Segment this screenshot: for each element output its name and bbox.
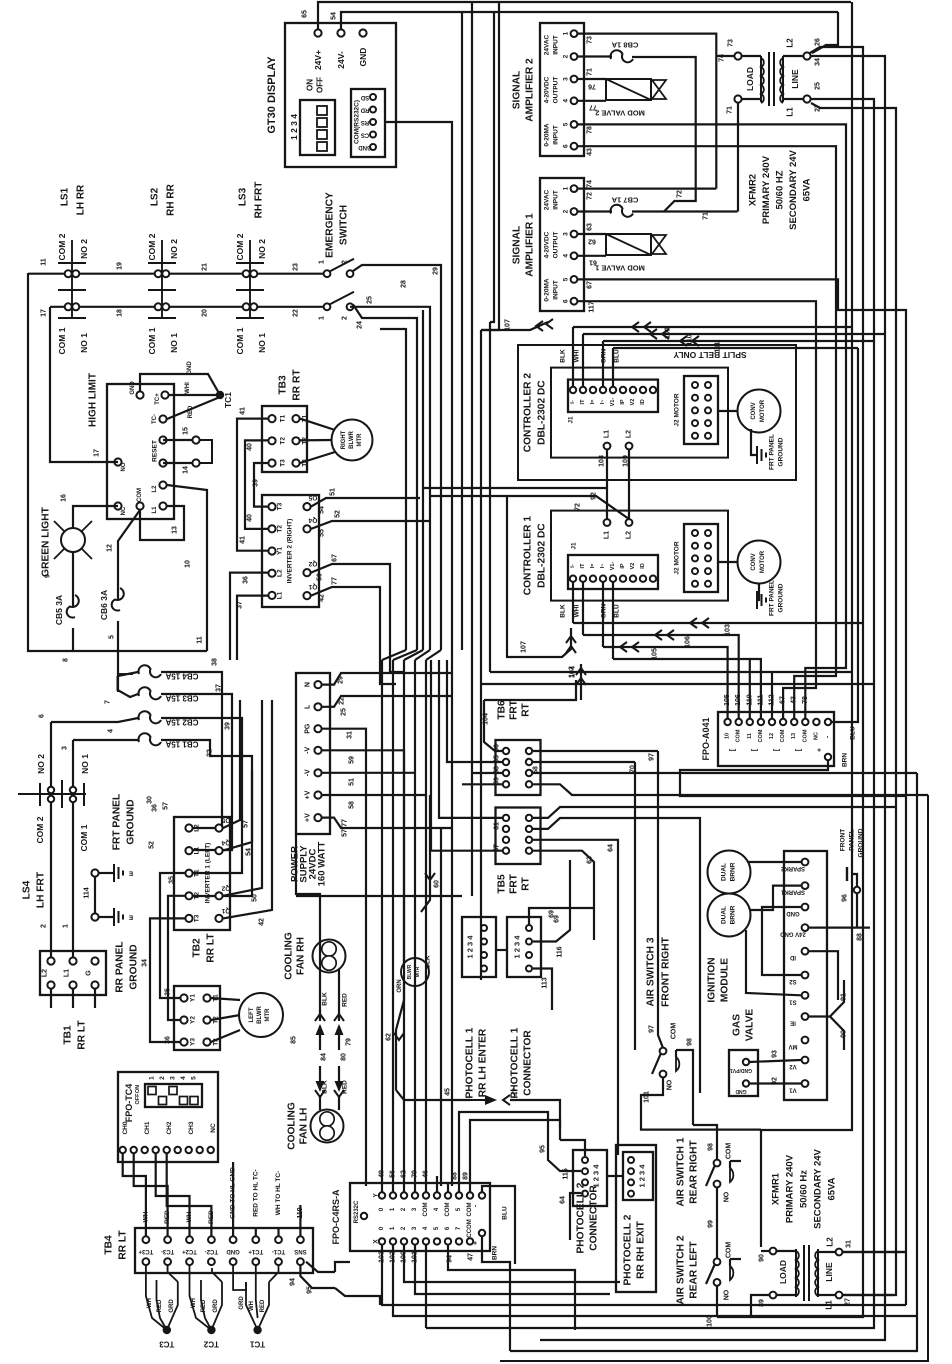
wire amp2 pin1 73 bbox=[578, 34, 716, 189]
controller 1 J1 connector bbox=[568, 555, 658, 589]
limit switch LS4 LH FRT bbox=[18, 793, 86, 795]
svg-text:1 2 3 4: 1 2 3 4 bbox=[638, 1164, 647, 1188]
svg-text:FPO-A041: FPO-A041 bbox=[701, 717, 711, 760]
svg-text:45: 45 bbox=[445, 1088, 452, 1096]
svg-text:47: 47 bbox=[513, 1088, 520, 1096]
XFMR2 load terminals bbox=[734, 52, 741, 59]
svg-text:67: 67 bbox=[780, 696, 787, 704]
svg-text:26: 26 bbox=[815, 38, 822, 46]
inverter2 terminal T3 bbox=[268, 503, 275, 510]
GT30 COM RS232C connector bbox=[351, 89, 385, 157]
svg-text:97: 97 bbox=[649, 753, 656, 761]
power supply terminal PG bbox=[314, 725, 321, 732]
right blower motor bbox=[332, 420, 373, 461]
svg-text:80: 80 bbox=[341, 1053, 348, 1061]
svg-text:42: 42 bbox=[319, 594, 326, 602]
svg-text:AIR SWITCH 3: AIR SWITCH 3 bbox=[646, 937, 657, 1006]
svg-text:L2: L2 bbox=[42, 969, 49, 977]
svg-text:WH: WH bbox=[249, 1301, 255, 1311]
BLU wire FPO-A041 bbox=[831, 348, 858, 722]
bus wire right vertical 928 bbox=[500, 795, 928, 1361]
svg-text:102: 102 bbox=[569, 666, 576, 678]
svg-text:CCOM: CCOM bbox=[467, 1219, 473, 1237]
terminal block TB6 FRT RT bbox=[496, 740, 541, 795]
svg-text:114: 114 bbox=[84, 887, 91, 898]
svg-text:RS232C: RS232C bbox=[354, 1200, 360, 1223]
photocell 2 connector box bbox=[573, 1150, 607, 1206]
photocell 1 connector box left bbox=[462, 917, 496, 977]
svg-text:GND: GND bbox=[358, 48, 368, 67]
svg-text:5: 5 bbox=[191, 1076, 198, 1080]
wire CB4 output bbox=[161, 672, 222, 828]
svg-text:I=: I= bbox=[590, 400, 596, 405]
svg-text:2: 2 bbox=[342, 316, 349, 320]
limit switch wire bus 11/19/21/23 bbox=[28, 273, 327, 275]
wire 111 with arrow bbox=[603, 340, 874, 342]
svg-text:ID: ID bbox=[789, 954, 796, 960]
svg-text:COM 2: COM 2 bbox=[147, 233, 157, 260]
wire inverter1 Q2 out bbox=[223, 700, 262, 896]
svg-text:34: 34 bbox=[142, 959, 149, 967]
wire TB6 row4 diagonal right bbox=[533, 784, 928, 795]
svg-text:GND: GND bbox=[130, 381, 136, 395]
svg-text:1 2 3 4: 1 2 3 4 bbox=[466, 935, 475, 959]
wires TB2 to left blower bbox=[211, 998, 240, 1000]
power supply terminal +V bbox=[314, 814, 321, 821]
controller 1 output wires bbox=[572, 582, 574, 623]
svg-text:WH: WH bbox=[191, 1298, 197, 1308]
svg-text:74: 74 bbox=[719, 54, 726, 62]
svg-text:NC: NC bbox=[121, 506, 127, 515]
svg-text:52: 52 bbox=[149, 841, 156, 849]
svg-text:TB4: TB4 bbox=[104, 1235, 115, 1255]
svg-text:4-20VDC: 4-20VDC bbox=[544, 231, 551, 258]
svg-text:BRNR: BRNR bbox=[730, 862, 737, 881]
svg-text:LINE: LINE bbox=[824, 1262, 834, 1282]
svg-text:GND: GND bbox=[786, 910, 800, 916]
svg-text:30: 30 bbox=[147, 796, 154, 804]
svg-text:TC2+: TC2+ bbox=[182, 1248, 197, 1254]
ignition module terminal S1 bbox=[802, 992, 809, 999]
wire 60 arrow bbox=[421, 795, 430, 912]
svg-text:COM: COM bbox=[726, 1143, 733, 1160]
inverter1 terminal L1 bbox=[185, 847, 192, 854]
svg-text:WHI: WHI bbox=[574, 349, 581, 362]
wire from high limit L2 no.10 bbox=[167, 485, 207, 651]
wire 24 emergency to bus bbox=[353, 305, 417, 651]
svg-text:ORN: ORN bbox=[397, 979, 403, 992]
svg-text:99: 99 bbox=[708, 1220, 715, 1228]
svg-text:71: 71 bbox=[587, 68, 594, 76]
FPO-C4RS-A box bbox=[350, 1183, 490, 1251]
svg-text:101: 101 bbox=[644, 1091, 651, 1103]
svg-text:12: 12 bbox=[769, 733, 775, 739]
svg-text:COM(RS232C): COM(RS232C) bbox=[354, 100, 361, 144]
limit switch LS3 RH FRT bbox=[249, 240, 251, 318]
svg-text:GND: GND bbox=[187, 361, 193, 375]
svg-text:79: 79 bbox=[346, 1038, 353, 1046]
wire amp2 pin6 43 bbox=[578, 146, 836, 718]
svg-text:Y3: Y3 bbox=[190, 1038, 197, 1046]
svg-text:GND: GND bbox=[358, 144, 372, 150]
FPO-TC4 DIP switch bbox=[145, 1084, 202, 1107]
amp2 terminal 5 bbox=[571, 121, 578, 128]
power supply box bbox=[296, 673, 330, 834]
svg-text:CH3: CH3 bbox=[188, 1121, 195, 1134]
inverter1 terminal Q5 bbox=[215, 824, 222, 831]
svg-text:74: 74 bbox=[587, 180, 594, 188]
svg-text:105: 105 bbox=[724, 694, 731, 706]
svg-text:COM: COM bbox=[671, 1023, 678, 1040]
svg-text:51: 51 bbox=[330, 488, 337, 496]
svg-text:L1: L1 bbox=[64, 969, 71, 977]
svg-text:FAN RH: FAN RH bbox=[296, 937, 307, 975]
svg-text:19: 19 bbox=[117, 262, 124, 270]
wire 94 95 from TB4 SNS bbox=[300, 1265, 335, 1288]
svg-text:GRD: GRD bbox=[239, 1296, 245, 1310]
FPO-A041 terminal 11 bbox=[747, 719, 753, 725]
svg-text:T1: T1 bbox=[194, 869, 201, 877]
svg-text:107: 107 bbox=[505, 319, 512, 331]
svg-text:J1: J1 bbox=[568, 416, 575, 424]
FPO-A041 terminal NC bbox=[813, 719, 819, 725]
wire 29 emergency to bus bbox=[353, 265, 441, 650]
amp2 terminal 6 bbox=[571, 143, 578, 150]
svg-text:25: 25 bbox=[815, 82, 822, 90]
svg-text:COM 1: COM 1 bbox=[235, 327, 245, 354]
power supply terminal +V bbox=[314, 791, 321, 798]
svg-text:98: 98 bbox=[708, 1143, 715, 1151]
FPO-A041 terminal 10 bbox=[724, 719, 730, 725]
wire 104 arrow ctrl1 bbox=[580, 664, 582, 700]
svg-text:L1: L1 bbox=[604, 430, 611, 438]
TB2 terminal row Y3 bbox=[180, 1038, 187, 1045]
svg-text:RT: RT bbox=[521, 876, 532, 890]
photocell2 wires bbox=[607, 1175, 623, 1177]
wire inverter1 T1 to TB2 bbox=[160, 873, 185, 998]
svg-text:GROUND: GROUND bbox=[126, 799, 137, 844]
high limit NC terminal bbox=[114, 502, 121, 509]
svg-text:J2 MOTOR: J2 MOTOR bbox=[674, 393, 681, 426]
wire 39 TB3 T3 to inverter2 T3 bbox=[254, 463, 268, 507]
svg-text:COM: COM bbox=[780, 729, 786, 742]
high limit L2 terminal bbox=[159, 481, 166, 488]
svg-text:Y2: Y2 bbox=[190, 1016, 197, 1024]
wire amp2 pin5 78 bbox=[578, 124, 846, 718]
svg-text:L1: L1 bbox=[604, 531, 611, 539]
photocell1 link wire bbox=[496, 949, 507, 951]
svg-text:BRN: BRN bbox=[842, 753, 849, 767]
svg-text:MOTOR: MOTOR bbox=[760, 550, 766, 573]
svg-text:XFMR2: XFMR2 bbox=[748, 174, 759, 206]
svg-text:COM 1: COM 1 bbox=[57, 327, 67, 354]
svg-text:35: 35 bbox=[165, 988, 172, 996]
svg-text:I-: I- bbox=[570, 564, 576, 568]
svg-text:LOAD: LOAD bbox=[778, 1260, 788, 1284]
breaker CB2 15A bbox=[138, 711, 161, 723]
svg-text:CONV: CONV bbox=[751, 553, 757, 570]
reset push button bbox=[192, 436, 199, 443]
bus from top 494 499 bbox=[490, 12, 494, 322]
gas valve terminal GND bbox=[743, 1080, 749, 1086]
svg-text:MTR: MTR bbox=[357, 433, 363, 447]
svg-text:16: 16 bbox=[61, 494, 68, 502]
power supply terminal -V bbox=[314, 769, 321, 776]
svg-text:CH0: CH0 bbox=[122, 1121, 129, 1134]
FPO-A041 plus terminal bbox=[825, 754, 831, 760]
svg-text:SWITCH: SWITCH bbox=[339, 205, 350, 245]
svg-text:42: 42 bbox=[259, 918, 266, 926]
svg-text:PG: PG bbox=[305, 723, 312, 734]
svg-text:CB7 1A: CB7 1A bbox=[611, 196, 638, 205]
wire 110 with arrow bbox=[583, 333, 885, 335]
svg-text:T3: T3 bbox=[277, 502, 284, 510]
svg-text:61: 61 bbox=[589, 259, 597, 266]
svg-text:73: 73 bbox=[587, 36, 594, 44]
TB4 interconnect wires bbox=[168, 1265, 178, 1282]
svg-text:60: 60 bbox=[434, 880, 441, 888]
wires amp2 out to valve2 bbox=[578, 78, 606, 80]
svg-text:HIGH LIMIT: HIGH LIMIT bbox=[88, 373, 99, 427]
GT30 DIP switch block bbox=[300, 100, 335, 155]
svg-text:GAS: GAS bbox=[732, 1014, 743, 1036]
svg-text:FRT PANEL: FRT PANEL bbox=[769, 580, 776, 616]
svg-text:L1: L1 bbox=[786, 107, 795, 117]
svg-text:1: 1 bbox=[563, 31, 570, 35]
svg-text:21: 21 bbox=[202, 263, 209, 271]
svg-text:LINE: LINE bbox=[790, 69, 800, 89]
ignition module terminal MV bbox=[802, 1037, 809, 1044]
wire 88 from 24V GND bbox=[809, 926, 870, 928]
wires amp1 out to valve1 bbox=[578, 233, 606, 235]
svg-text:Y1: Y1 bbox=[277, 547, 284, 555]
svg-text:29: 29 bbox=[433, 267, 440, 275]
BRN wire FPO-A041 bbox=[680, 760, 906, 796]
svg-text:SECONDARY 24V: SECONDARY 24V bbox=[813, 1148, 824, 1228]
svg-text:18: 18 bbox=[117, 309, 124, 317]
svg-text:L1: L1 bbox=[825, 1300, 834, 1310]
svg-text:COOLING: COOLING bbox=[284, 932, 295, 980]
svg-text:Q2: Q2 bbox=[221, 884, 230, 891]
FPO-C4RS-A plus minus terminals bbox=[479, 1192, 485, 1198]
svg-text:113: 113 bbox=[542, 977, 549, 988]
svg-text:+V: +V bbox=[305, 813, 312, 822]
wire 89 to photocell2 bbox=[470, 1120, 560, 1192]
svg-text:RR RH EXIT: RR RH EXIT bbox=[636, 1220, 647, 1279]
ignition module terminal ID bbox=[802, 948, 809, 955]
photocell 2 inner connector bbox=[623, 1152, 653, 1200]
frt panel ground ctrl2 bbox=[751, 429, 756, 455]
high limit GND terminal bbox=[136, 391, 143, 398]
wire XFMR2 L2 second 34 bbox=[540, 56, 885, 1340]
svg-text:BLWR: BLWR bbox=[349, 431, 355, 449]
svg-text:RR LH ENTER: RR LH ENTER bbox=[478, 1028, 489, 1097]
controller 2 J1 connector bbox=[568, 380, 658, 412]
svg-text:40: 40 bbox=[247, 443, 254, 451]
transformer XFMR2 bbox=[760, 56, 762, 102]
svg-text:BLWR: BLWR bbox=[257, 1006, 263, 1024]
staircase wires right of controllers bbox=[490, 671, 852, 673]
svg-text:24: 24 bbox=[357, 321, 364, 329]
svg-text:T2: T2 bbox=[277, 525, 284, 533]
svg-text:L2: L2 bbox=[626, 531, 633, 539]
svg-text:COM: COM bbox=[802, 729, 808, 742]
wire TB5 row3 to 64 bbox=[533, 840, 618, 1155]
ignition module terminal 24V GND bbox=[802, 924, 809, 931]
svg-text:2: 2 bbox=[41, 924, 48, 928]
bus wire right to XFMR1 L2 bbox=[843, 1251, 906, 1253]
wires FPO-C4RS-A X row down staircase bbox=[382, 1245, 906, 1305]
svg-text:LS2: LS2 bbox=[150, 187, 161, 206]
wire inverter1 Q5 out bbox=[223, 700, 240, 828]
svg-text:GND: GND bbox=[735, 1088, 747, 1094]
wire power supply -V 59 bbox=[322, 749, 404, 751]
svg-text:108: 108 bbox=[599, 455, 606, 467]
svg-text:PHOTOCELL 2: PHOTOCELL 2 bbox=[623, 1214, 634, 1285]
svg-text:41: 41 bbox=[240, 407, 247, 415]
air switch 1 diaphragm bbox=[730, 1168, 733, 1182]
svg-text:COM 1: COM 1 bbox=[79, 824, 89, 851]
svg-text:31: 31 bbox=[846, 1240, 853, 1248]
svg-text:FRT PANEL: FRT PANEL bbox=[112, 794, 123, 850]
svg-text:MOD VALVE 1: MOD VALVE 1 bbox=[595, 264, 645, 273]
TB4 terminal TC3- bbox=[164, 1236, 171, 1243]
air switch 3 contacts bbox=[660, 1048, 667, 1055]
wire GND to S2 bbox=[762, 907, 801, 975]
svg-text:63: 63 bbox=[587, 223, 594, 231]
BLU wire from FPO-C4RS-A bbox=[482, 1186, 515, 1264]
svg-text:117: 117 bbox=[589, 301, 596, 312]
ground symbol E2 bbox=[91, 913, 98, 920]
svg-text:RR LT: RR LT bbox=[118, 1230, 129, 1260]
svg-text:67: 67 bbox=[332, 554, 339, 562]
svg-text:78: 78 bbox=[587, 126, 594, 134]
svg-text:PHOTOCELL 1: PHOTOCELL 1 bbox=[465, 1027, 476, 1098]
ignition module terminal V1 bbox=[802, 1080, 809, 1087]
svg-text:50: 50 bbox=[317, 573, 324, 581]
breaker CB3 15A bbox=[138, 687, 161, 699]
svg-text:36: 36 bbox=[165, 1036, 172, 1044]
svg-text:MODULE: MODULE bbox=[720, 958, 731, 1002]
svg-text:4: 4 bbox=[563, 99, 570, 103]
svg-text:G: G bbox=[86, 970, 93, 976]
wire 3 from LS4 NO1 bbox=[72, 740, 74, 762]
wire 28 emergency to bus bbox=[350, 307, 430, 650]
svg-text:REAR LEFT: REAR LEFT bbox=[689, 1241, 700, 1299]
svg-text:L2: L2 bbox=[626, 430, 633, 438]
svg-text:BLK: BLK bbox=[322, 1080, 329, 1094]
svg-text:54: 54 bbox=[331, 12, 338, 20]
svg-text:NO: NO bbox=[667, 1079, 674, 1090]
terminal block TB3 RR RT bbox=[262, 406, 307, 472]
bus middle vertical 423 bbox=[422, 310, 424, 650]
svg-text:N: N bbox=[305, 682, 312, 687]
svg-text:COM: COM bbox=[758, 729, 764, 742]
svg-text:WH TO HL TC-: WH TO HL TC- bbox=[275, 1171, 282, 1216]
svg-text:BRN: BRN bbox=[492, 1246, 499, 1260]
wire xfmr2 load top lead bbox=[716, 55, 734, 57]
air switch 2 out wire bbox=[716, 1286, 718, 1317]
TB4 terminal SNS bbox=[297, 1236, 304, 1243]
svg-text:GRN: GRN bbox=[601, 348, 608, 363]
wire inverter2 Q2 out 67/50 bbox=[311, 564, 404, 672]
ignition module terminal SPARK2 bbox=[802, 859, 809, 866]
air switch 2 contacts bbox=[714, 1258, 721, 1265]
svg-text:L1: L1 bbox=[194, 846, 201, 854]
svg-text:3: 3 bbox=[563, 77, 570, 81]
BRN wire from FPO-C4RS-A bbox=[482, 1237, 510, 1351]
svg-text:GROUND: GROUND bbox=[858, 828, 865, 857]
svg-text:V2: V2 bbox=[630, 399, 636, 406]
svg-text:61: 61 bbox=[494, 822, 501, 830]
amp2 terminal 3 bbox=[571, 76, 578, 83]
TB5 right wires bbox=[533, 807, 896, 818]
svg-text:FRT PANEL: FRT PANEL bbox=[769, 434, 776, 470]
svg-text:IE: IE bbox=[790, 1020, 796, 1026]
inverter 2 (right) box bbox=[262, 495, 319, 607]
svg-text:ID: ID bbox=[640, 563, 646, 569]
svg-text:NC: NC bbox=[813, 732, 819, 740]
ground symbol E1 bbox=[91, 869, 98, 876]
svg-text:3: 3 bbox=[170, 1076, 177, 1080]
wire inverter2 Q1 out 77/42 bbox=[311, 587, 396, 684]
wire inverter2 Q4 out 52/55 bbox=[311, 521, 430, 529]
svg-text:65VA: 65VA bbox=[802, 178, 813, 201]
svg-text:Q5: Q5 bbox=[221, 817, 230, 824]
svg-text:92: 92 bbox=[772, 1077, 779, 1085]
svg-text:Q1: Q1 bbox=[221, 907, 230, 914]
svg-text:10: 10 bbox=[725, 733, 731, 739]
svg-text:SECONDARY 24V: SECONDARY 24V bbox=[788, 149, 799, 229]
wire XFMR2 L2 to bus 26 bbox=[717, 47, 863, 1317]
amp2 terminal 2 bbox=[571, 53, 578, 60]
svg-text:FRT: FRT bbox=[509, 873, 520, 894]
wire 107 arrow top bbox=[481, 322, 548, 330]
TB2 terminal row Y2 bbox=[180, 1016, 187, 1023]
svg-text:RR LT: RR LT bbox=[77, 1020, 88, 1050]
wire 99 between switches bbox=[716, 1187, 718, 1258]
wire amp2 pin2 CB8 out bbox=[632, 57, 696, 212]
svg-text:52: 52 bbox=[335, 510, 342, 518]
svg-text:RED: RED bbox=[157, 1299, 163, 1312]
svg-text:COM 2: COM 2 bbox=[57, 233, 67, 260]
svg-text:RIGHT: RIGHT bbox=[341, 430, 347, 449]
svg-text:31: 31 bbox=[347, 731, 354, 739]
high limit TC+ terminal bbox=[161, 391, 168, 398]
svg-text:96: 96 bbox=[842, 894, 849, 902]
wire bus stub 25 bbox=[380, 329, 406, 650]
signal amplifier 1 box bbox=[540, 178, 584, 311]
svg-text:LS4: LS4 bbox=[22, 880, 33, 899]
ignition module terminal S2 bbox=[802, 972, 809, 979]
svg-text:FRT: FRT bbox=[509, 699, 520, 720]
svg-text:J2 MOTOR: J2 MOTOR bbox=[674, 541, 681, 574]
high limit L1 terminal bbox=[159, 502, 166, 509]
svg-text:Q4: Q4 bbox=[308, 516, 317, 523]
svg-text:1: 1 bbox=[319, 260, 326, 264]
svg-text:RH FRT: RH FRT bbox=[254, 182, 265, 219]
svg-text:IT: IT bbox=[580, 399, 586, 405]
svg-text:TC3-: TC3- bbox=[161, 1248, 174, 1254]
wire amp1 pin1 74 bbox=[578, 188, 716, 190]
svg-text:39: 39 bbox=[253, 479, 260, 487]
bus transition jogs bbox=[382, 650, 406, 660]
svg-text:39: 39 bbox=[225, 722, 232, 730]
svg-text:RT: RT bbox=[521, 702, 532, 716]
FPO-TC4 box bbox=[118, 1072, 218, 1162]
inverter2 terminal L2 bbox=[268, 570, 275, 577]
svg-text:0-20MA: 0-20MA bbox=[544, 123, 551, 146]
